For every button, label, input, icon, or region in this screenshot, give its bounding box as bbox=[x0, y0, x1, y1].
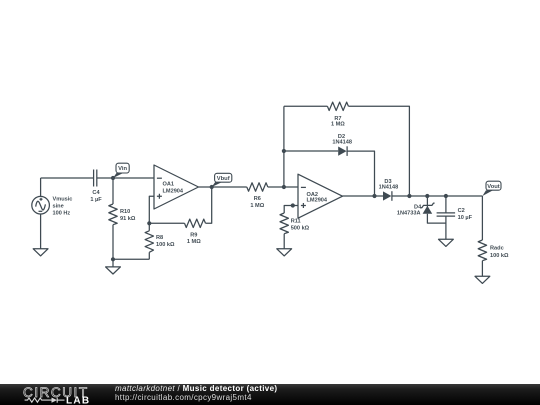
R10 value label bbox=[120, 209, 136, 222]
wire C4 to Vin node bbox=[97, 177, 113, 179]
ground under R11 bbox=[277, 249, 292, 256]
svg-text:1N4733A: 1N4733A bbox=[397, 211, 421, 217]
node D2 output junction bbox=[372, 194, 376, 198]
OA1 value label bbox=[163, 182, 184, 195]
ground under Radc bbox=[475, 276, 490, 283]
node R8 R9 opamp junction bbox=[147, 221, 151, 225]
node D4 branch junction bbox=[425, 194, 429, 198]
node feedback branch junction bbox=[282, 185, 286, 189]
logo squiggle resistor diode bbox=[25, 398, 65, 403]
wire D2 right and down to OA2 output bbox=[347, 151, 374, 196]
svg-text:R9: R9 bbox=[190, 233, 197, 239]
Radc value label bbox=[490, 246, 509, 259]
wire Radc to ground bbox=[481, 261, 483, 277]
svg-text:100 kΩ: 100 kΩ bbox=[156, 242, 175, 248]
resistor R6 bbox=[247, 183, 268, 191]
resistor R11 bbox=[280, 213, 288, 234]
node Vbuf label box bbox=[215, 173, 232, 182]
svg-text:R10: R10 bbox=[120, 209, 130, 215]
node C2 branch junction bbox=[444, 194, 448, 198]
voltage source Vmusic bbox=[32, 196, 50, 214]
resistor R7 bbox=[327, 102, 348, 110]
diode D3 bbox=[383, 191, 392, 201]
svg-text:OA1: OA1 bbox=[163, 182, 175, 188]
svg-text:sine: sine bbox=[53, 204, 64, 210]
svg-text:http://circuitlab.com/cpcy9wra: http://circuitlab.com/cpcy9wraj5mt4 bbox=[115, 393, 252, 402]
wire C2 top bbox=[445, 196, 447, 213]
capacitor C4 bbox=[94, 170, 97, 187]
svg-text:Vbuf: Vbuf bbox=[217, 176, 230, 182]
svg-text:C4: C4 bbox=[92, 190, 100, 196]
wire D2 left bbox=[284, 150, 338, 152]
wire D4 top bbox=[426, 196, 428, 207]
svg-text:1 MΩ: 1 MΩ bbox=[250, 203, 264, 209]
node Vbuf junction bbox=[210, 185, 214, 189]
node bottom rail junction bbox=[111, 257, 115, 261]
wire feedback vertical bbox=[283, 106, 285, 187]
svg-text:100 Hz: 100 Hz bbox=[53, 211, 71, 217]
svg-text:Vin: Vin bbox=[118, 166, 127, 172]
D2 value label bbox=[332, 134, 352, 146]
svg-text:1N4148: 1N4148 bbox=[332, 140, 352, 146]
op-amp OA2 bbox=[298, 174, 343, 218]
wire D3 to Vout node bbox=[392, 195, 483, 197]
svg-text:R8: R8 bbox=[156, 235, 163, 241]
D3 value label bbox=[379, 179, 399, 190]
R6 value label bbox=[250, 196, 264, 209]
D4 value label bbox=[397, 205, 422, 217]
wire Vin node to OA1 inverting input bbox=[113, 177, 154, 179]
wire Vbuf to R6 bbox=[212, 186, 247, 188]
wire OA1 output bbox=[199, 186, 212, 188]
node Vin label box bbox=[116, 163, 129, 173]
OA2 value label bbox=[307, 192, 328, 204]
diode D2 bbox=[338, 146, 347, 156]
ground under Vmusic bbox=[33, 249, 48, 256]
svg-text:LAB: LAB bbox=[66, 395, 90, 405]
C2 value label bbox=[458, 208, 473, 221]
wire R11 to ground bbox=[283, 234, 285, 249]
node D2 branch junction bbox=[282, 149, 286, 153]
wire D4 bottom to C2 branch bbox=[427, 214, 446, 223]
wire R8 bottom bbox=[148, 252, 150, 259]
zener diode D4 bbox=[421, 203, 435, 214]
wire R6 to OA2 inverting input bbox=[268, 186, 298, 188]
node Vout label box bbox=[486, 181, 501, 190]
svg-text:1 µF: 1 µF bbox=[90, 197, 102, 203]
wire OA2 output to D3 bbox=[343, 195, 384, 197]
svg-text:R6: R6 bbox=[254, 196, 261, 202]
resistor R9 bbox=[185, 219, 206, 227]
wire Vin node down to R10 bbox=[112, 178, 114, 204]
wire OA2 non-inverting input bbox=[284, 206, 298, 214]
resistor R10 bbox=[109, 204, 117, 225]
wire R9 to Vbuf node bbox=[206, 187, 212, 223]
svg-text:Vmusic: Vmusic bbox=[53, 197, 73, 203]
op-amp OA1 bbox=[154, 165, 199, 209]
R7 value label bbox=[331, 116, 345, 128]
wire bottom rail to R8 bbox=[113, 258, 149, 260]
node OA2 plus input junction bbox=[291, 203, 295, 207]
wire junction up to OA1 non-inverting input bbox=[149, 196, 154, 223]
ground under bottom rail bbox=[106, 267, 121, 274]
svg-text:C2: C2 bbox=[458, 208, 465, 214]
wire Vout down to Radc bbox=[481, 196, 483, 240]
wire R8 top to junction bbox=[148, 223, 150, 231]
R9 value label bbox=[187, 233, 201, 246]
node Vbuf flag bbox=[212, 182, 223, 187]
wire R7 left bbox=[284, 105, 328, 107]
wire source top bbox=[40, 178, 42, 196]
svg-text:R11: R11 bbox=[291, 219, 301, 225]
svg-text:100 kΩ: 100 kΩ bbox=[490, 253, 509, 259]
svg-text:91 kΩ: 91 kΩ bbox=[120, 216, 136, 222]
wire junction to R9 bbox=[149, 222, 184, 224]
wire R10 down to bottom rail bbox=[112, 225, 114, 260]
wire C2 bottom to ground bbox=[445, 216, 447, 239]
svg-text:Radc: Radc bbox=[490, 246, 504, 252]
svg-text:1 MΩ: 1 MΩ bbox=[331, 122, 345, 128]
svg-text:D4: D4 bbox=[414, 205, 422, 211]
capacitor C2 bbox=[437, 213, 456, 216]
R8 value label bbox=[156, 235, 175, 248]
svg-text:1 MΩ: 1 MΩ bbox=[187, 239, 201, 245]
svg-text:mattclarkdotnet / Music detect: mattclarkdotnet / Music detector (active… bbox=[115, 384, 277, 393]
wire R7 right and down to output node bbox=[348, 106, 409, 196]
R11 value label bbox=[291, 219, 310, 232]
Vmusic value label bbox=[53, 197, 73, 217]
C4 value label bbox=[90, 190, 102, 203]
resistor Radc bbox=[478, 240, 486, 261]
svg-text:LM2904: LM2904 bbox=[307, 198, 328, 204]
svg-text:10 µF: 10 µF bbox=[458, 215, 473, 221]
node R7 feedback junction bbox=[407, 194, 411, 198]
svg-text:500 kΩ: 500 kΩ bbox=[291, 225, 310, 231]
resistor R8 bbox=[145, 231, 153, 253]
svg-text:1N4148: 1N4148 bbox=[379, 184, 399, 190]
node Vin flag bbox=[113, 173, 124, 178]
wire rail node ground stem bbox=[112, 259, 114, 267]
ground under C2 bbox=[439, 239, 454, 246]
node Vout flag bbox=[482, 190, 493, 196]
svg-text:LM2904: LM2904 bbox=[163, 189, 184, 195]
node Vin junction bbox=[111, 176, 115, 180]
svg-text:Vout: Vout bbox=[487, 184, 500, 190]
wire top horizontal to C4 bbox=[41, 177, 94, 179]
wire source bottom to ground bbox=[40, 214, 42, 249]
